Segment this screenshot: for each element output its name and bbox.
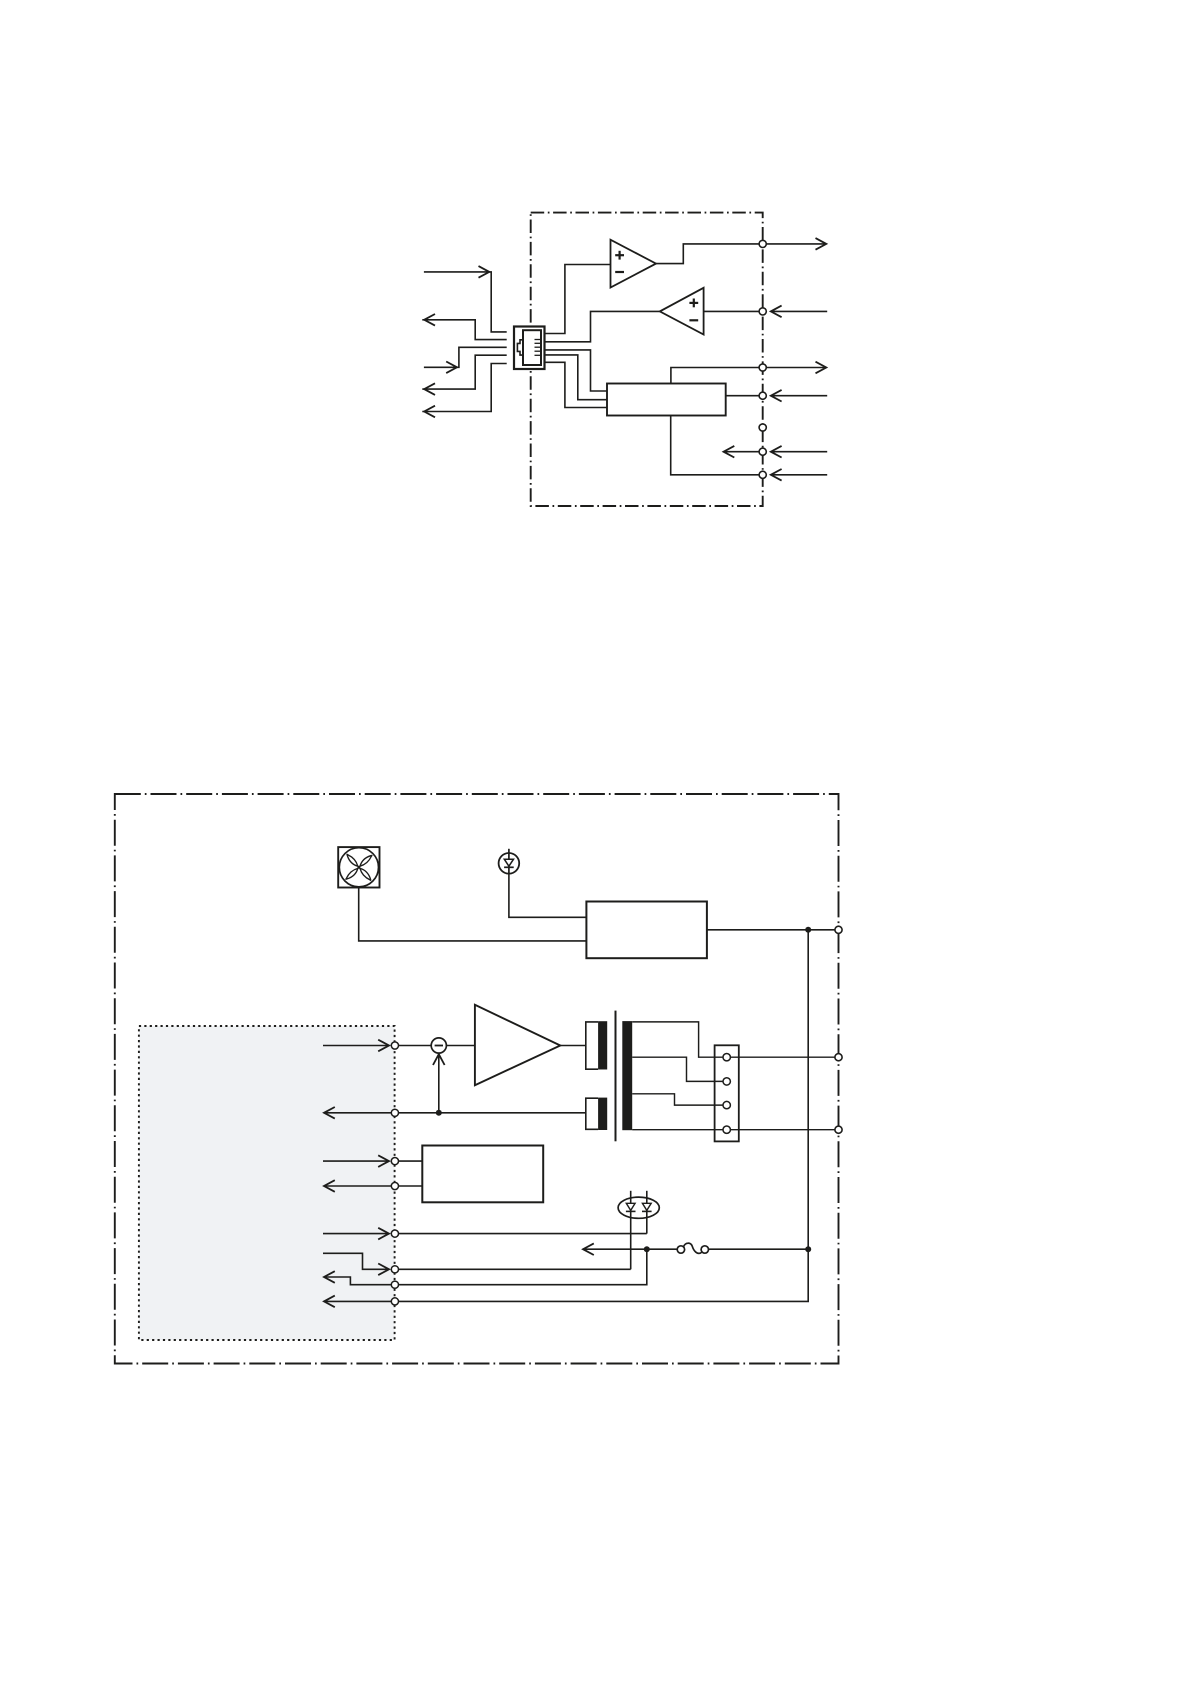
terminal C3 bbox=[391, 1158, 398, 1165]
wire W4 (output arrow from connector pin 4) bbox=[422, 355, 506, 395]
arrow in at T2 bbox=[771, 306, 827, 318]
transformer T1 core bbox=[615, 1011, 617, 1142]
wire fan to power block bbox=[359, 888, 587, 941]
wire strip pin 1 to terminal T9 bbox=[730, 1056, 835, 1058]
op-amp U1 bbox=[611, 240, 657, 288]
wire secondary tap 2 to strip pin 2 bbox=[632, 1057, 723, 1081]
amplifier A1 (triangle) bbox=[475, 1005, 560, 1085]
wire C6 to photocoupler left leg bbox=[398, 1268, 630, 1270]
wire C8 (from DC bus down and left) bbox=[398, 1249, 808, 1301]
terminal T7 bbox=[759, 471, 766, 478]
block B (unlabeled control block) bbox=[422, 1146, 543, 1203]
terminal T1 bbox=[759, 240, 766, 247]
terminal C1 input arrow bbox=[323, 1040, 389, 1052]
wire C4 to block B bbox=[398, 1185, 422, 1187]
photocoupler PC1 bbox=[618, 1191, 659, 1270]
wire block A right to terminal T4 bbox=[726, 395, 760, 397]
transformer T1 secondary winding bbox=[622, 1021, 632, 1130]
wire C1 to summing node bbox=[398, 1045, 431, 1047]
junction at PSU output bbox=[805, 927, 811, 933]
wire summing node to amplifier bbox=[446, 1045, 475, 1047]
wire C3 to block B bbox=[398, 1160, 422, 1162]
terminal T10 (secondary output 2) bbox=[835, 1126, 842, 1133]
terminal T6 bbox=[759, 448, 766, 455]
junction at DC bus / mains line bbox=[805, 1246, 811, 1252]
arrow out at T3 bbox=[766, 362, 826, 374]
wire P4 (connector to block A pin 2) bbox=[545, 355, 608, 400]
terminal T3 bbox=[759, 364, 766, 371]
terminal T5 bbox=[759, 424, 766, 431]
terminal C4 bbox=[391, 1182, 398, 1189]
wire C5 to photocoupler right leg bbox=[398, 1233, 646, 1235]
block PSU (unlabeled power block) bbox=[586, 902, 707, 959]
block A (unlabeled function block) bbox=[607, 384, 726, 416]
terminal C5 bbox=[391, 1230, 398, 1237]
terminal C1 bbox=[391, 1042, 398, 1049]
fuse F1 bbox=[677, 1243, 708, 1253]
thermal sensor D1 (diode in circle) bbox=[499, 849, 520, 874]
arrow in at T6 with branch arrow to left bbox=[724, 446, 828, 458]
wire terminal T2 to op-amp U2 input bbox=[704, 310, 760, 312]
wire block A bottom to terminal T7 bbox=[671, 416, 760, 475]
wire PSU output to terminal T8 bbox=[707, 929, 835, 931]
wire W2 (output arrow from connector pin 2) bbox=[422, 314, 506, 340]
wire fuse to DC bus bbox=[709, 1248, 809, 1250]
wire amplifier to transformer primary bbox=[560, 1045, 586, 1047]
mains line with direction arrow bbox=[583, 1243, 677, 1255]
terminal C6 input arrow (stepped) bbox=[323, 1253, 389, 1275]
wire W3 (input arrow to connector pin 3) bbox=[424, 347, 507, 373]
fan B1 bbox=[338, 847, 379, 887]
terminal T8 (DC output) bbox=[835, 926, 842, 933]
junction on feedback wire bbox=[436, 1110, 442, 1116]
terminal C6 bbox=[391, 1266, 398, 1273]
wire P2 (op-amp U2 output to connector) bbox=[545, 311, 660, 341]
transformer T1 primary winding (lower) bbox=[586, 1098, 607, 1130]
power unit boundary (dash-dot box, bottom diagram) bbox=[115, 794, 839, 1364]
terminal C2 bbox=[391, 1109, 398, 1116]
feedback arrow into summing node bbox=[433, 1054, 445, 1113]
wire secondary tap 1 to strip pin 1 bbox=[632, 1022, 723, 1057]
terminal T2 bbox=[759, 308, 766, 315]
wire C2 feedback to transformer lower primary bbox=[398, 1112, 585, 1114]
op-amp U2 bbox=[660, 288, 704, 335]
wire U1 output to terminal T1 bbox=[656, 244, 759, 264]
wire secondary tap 4 to strip pin 4 bbox=[632, 1129, 723, 1131]
arrow in at T4 bbox=[771, 390, 827, 402]
terminal C2 output arrow bbox=[324, 1107, 391, 1119]
wire strip pin 4 to terminal T10 bbox=[730, 1129, 835, 1131]
transformer T1 primary winding (upper) bbox=[586, 1021, 607, 1069]
wire W1 (input arrow to connector pin 1) bbox=[424, 266, 507, 332]
wire DC bus vertical bbox=[807, 930, 809, 1249]
control section (dotted sub-box, shaded) bbox=[139, 1026, 395, 1340]
terminal T4 bbox=[759, 392, 766, 399]
summing node S1 (circle with minus) bbox=[431, 1038, 446, 1053]
terminal strip TB1 pins bbox=[723, 1054, 730, 1134]
wire P3 (connector to block A pin 1) bbox=[545, 350, 608, 391]
wire C7 tap (from mains junction down and left) bbox=[398, 1249, 646, 1285]
terminal C5 input arrow bbox=[323, 1228, 389, 1240]
terminal C8 output arrow bbox=[324, 1296, 391, 1308]
terminal C4 output arrow bbox=[324, 1180, 391, 1192]
wire P1 (connector to op-amp U1 input) bbox=[545, 265, 611, 334]
terminal T9 (secondary output 1) bbox=[835, 1054, 842, 1061]
wire W5 (output arrow from connector pin 5) bbox=[422, 364, 506, 418]
unit boundary (dash-dot box, top diagram) bbox=[531, 213, 763, 506]
wire block A top to terminal T3 bbox=[671, 368, 759, 384]
terminal C8 bbox=[391, 1298, 398, 1305]
connector J1 (modular jack on unit boundary) bbox=[514, 327, 545, 370]
terminal C7 output arrow (stepped) bbox=[324, 1271, 391, 1285]
arrow in at T7 bbox=[771, 469, 827, 481]
wire P5 (connector to block A pin 3) bbox=[545, 362, 608, 407]
wire secondary tap 3 to strip pin 3 bbox=[632, 1094, 723, 1105]
terminal strip TB1 body bbox=[715, 1045, 739, 1141]
wire sensor to power block bbox=[509, 874, 587, 918]
junction at photocoupler tap bbox=[644, 1246, 650, 1252]
terminal C7 bbox=[391, 1281, 398, 1288]
terminal C3 input arrow bbox=[323, 1155, 389, 1167]
arrow out at T1 bbox=[766, 238, 826, 250]
